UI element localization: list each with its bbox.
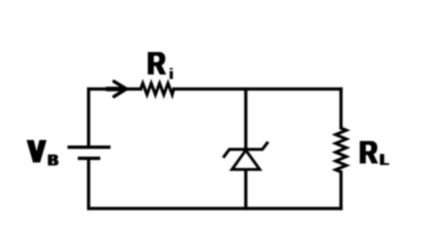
wire zener top lead: [244, 89, 247, 149]
wire top rail left segment: [89, 87, 106, 90]
wire top rail right segment: [174, 87, 341, 90]
label V_B: [26, 134, 59, 170]
wire top rail mid segment: [124, 87, 141, 90]
battery VB short plate: [78, 157, 101, 160]
zener diode triangle (anode, apex up): [232, 150, 260, 169]
wire zener bottom lead: [244, 170, 247, 209]
wire right rail lower (RL bottom lead): [339, 172, 342, 209]
wire left rail upper (battery top lead): [87, 89, 90, 146]
svg-text:V: V: [29, 134, 47, 170]
svg-text:R: R: [359, 134, 377, 170]
wire left rail lower (battery bottom lead): [87, 160, 90, 209]
current direction arrow: [106, 81, 127, 96]
resistor Ri zigzag: [141, 83, 174, 94]
label R_L: [358, 134, 390, 170]
svg-text:L: L: [380, 152, 388, 169]
svg-text:B: B: [48, 153, 58, 170]
resistor RL zigzag: [336, 128, 347, 172]
svg-text:R: R: [147, 46, 165, 82]
wire bottom rail: [89, 207, 341, 210]
label R_i: [146, 46, 174, 83]
zener diode cathode bar with bent ends: [223, 142, 268, 158]
svg-text:i: i: [169, 66, 173, 83]
wire right rail upper (RL top lead): [339, 89, 342, 128]
battery VB long plate: [68, 146, 111, 149]
